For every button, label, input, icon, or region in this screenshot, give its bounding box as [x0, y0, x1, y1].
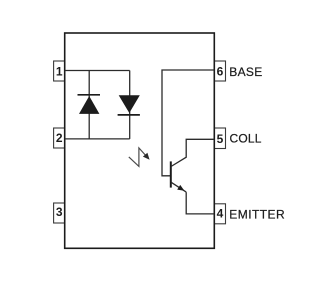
svg-text:5: 5: [217, 132, 224, 146]
label BASE (pin 6): [229, 65, 262, 79]
diode D2 (LED, right, cathode down): [118, 95, 140, 115]
svg-text:COLL: COLL: [230, 131, 262, 145]
pin 4 number: [217, 207, 224, 221]
label EMITTER (pin 4): [229, 208, 285, 222]
pin 5 box: [214, 128, 225, 149]
svg-text:4: 4: [217, 207, 224, 221]
pin 4 box: [214, 204, 225, 224]
wire left diode branch: [88, 71, 90, 139]
svg-text:2: 2: [56, 131, 63, 145]
light emission arrow (photon path): [129, 148, 150, 167]
pin 1 box: [54, 61, 65, 81]
wire pin6 to base: [162, 70, 214, 176]
pin 2 box: [54, 128, 65, 148]
svg-text:3: 3: [56, 205, 63, 219]
pin 3 number: [56, 205, 63, 219]
diode D1 (left, cathode up): [78, 95, 101, 114]
pin 1 number: [56, 64, 63, 78]
svg-text:EMITTER: EMITTER: [229, 208, 285, 222]
wire pin1 to anode rail (top rail): [65, 70, 130, 72]
pin 3 box: [54, 203, 65, 223]
pin 6 number: [217, 64, 224, 78]
wire pin2 to cathode rail (bottom rail): [65, 138, 130, 140]
pin 5 number: [217, 132, 224, 146]
svg-text:6: 6: [217, 64, 224, 78]
wire emitter to pin4: [186, 192, 214, 214]
pin 6 box: [214, 61, 225, 81]
package outline U1 (DIP body): [65, 33, 215, 248]
phototransistor Q1 base bar: [170, 161, 172, 187]
svg-text:BASE: BASE: [229, 65, 262, 79]
wire right diode branch: [129, 71, 131, 139]
label COLL (pin 5): [230, 131, 262, 145]
svg-text:1: 1: [56, 64, 63, 78]
phototransistor Q1 emitter lead with arrow: [171, 182, 186, 192]
phototransistor Q1 collector lead + wire to pin5: [171, 139, 214, 166]
pin 2 number: [56, 131, 63, 145]
